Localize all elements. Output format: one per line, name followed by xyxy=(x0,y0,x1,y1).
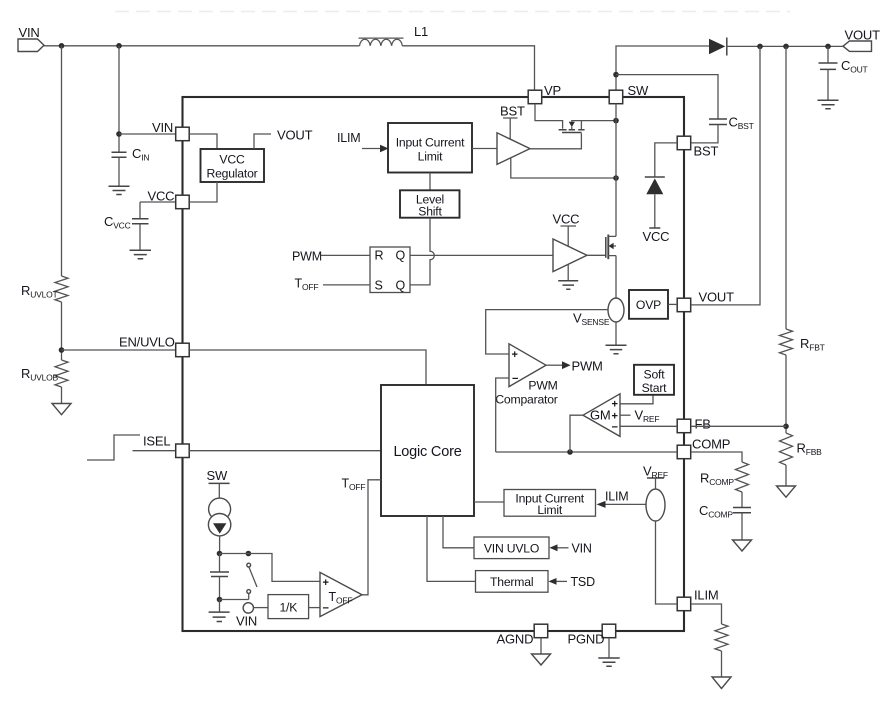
wire Logic Core to VIN UVLO xyxy=(443,516,474,548)
Soft Start block xyxy=(634,365,674,395)
junction dot SW node xyxy=(613,118,619,124)
ISEL step symbol xyxy=(87,435,140,460)
svg-text:Q: Q xyxy=(396,249,406,263)
svg-text:−: − xyxy=(323,603,329,615)
svg-text:SW: SW xyxy=(207,468,228,483)
resistor RFBT xyxy=(780,329,793,355)
svg-text:Shift: Shift xyxy=(418,205,442,219)
svg-text:FB: FB xyxy=(695,417,711,432)
Input Current Limit block U4 xyxy=(504,490,596,517)
wire current source to node xyxy=(219,536,221,554)
wire COMP line xyxy=(496,451,678,453)
wire CVCC to VCC pin xyxy=(140,201,176,203)
svg-text:PWM: PWM xyxy=(572,359,603,374)
svg-text:SW: SW xyxy=(628,83,649,98)
pin VCC xyxy=(176,195,190,209)
svg-text:TSD: TSD xyxy=(571,575,596,589)
resistor RFBB xyxy=(780,433,793,465)
pin VP xyxy=(528,90,542,104)
power FET Q1 xyxy=(605,237,607,258)
VIN input tag xyxy=(18,39,44,52)
junction dot switch tap xyxy=(246,551,252,557)
svg-text:S: S xyxy=(375,278,383,292)
capacitor CBST xyxy=(709,119,727,125)
wire Logic Core to Thermal xyxy=(427,516,476,581)
wire COMP pin to RCOMP xyxy=(691,452,742,462)
ground arrow AGND xyxy=(540,638,542,654)
ground timing cap xyxy=(219,600,221,612)
ground CVCC xyxy=(130,250,152,259)
current sense VSENSE xyxy=(608,298,624,322)
svg-text:VIN: VIN xyxy=(19,25,40,40)
junction dot xyxy=(116,43,122,49)
svg-text:ILIM: ILIM xyxy=(694,588,718,603)
ground VSENSE xyxy=(615,322,617,345)
pin PGND xyxy=(602,624,616,638)
wire GM output xyxy=(570,415,583,452)
pin ISEL xyxy=(176,444,190,458)
Level Shift block xyxy=(400,190,460,217)
svg-text:+: + xyxy=(612,399,618,411)
wire U1 to Level Shift xyxy=(429,173,431,191)
svg-text:VCC: VCC xyxy=(148,189,175,204)
junction dot xyxy=(783,44,789,50)
VIN arrow into VIN UVLO xyxy=(549,544,557,551)
ground CIN xyxy=(109,186,130,194)
pin VOUT xyxy=(677,298,691,312)
svg-text:1/K: 1/K xyxy=(279,601,297,615)
pin BST xyxy=(677,136,691,150)
svg-text:Regulator: Regulator xyxy=(206,167,257,181)
wire Level Shift to latch with hop xyxy=(410,218,434,285)
svg-text:VOUT: VOUT xyxy=(845,28,881,43)
svg-text:ISEL: ISEL xyxy=(143,434,170,449)
ground arrow RFBB xyxy=(777,486,796,497)
svg-text:VCC: VCC xyxy=(219,153,245,167)
capacitor CVCC xyxy=(139,202,141,218)
svg-text:AGND: AGND xyxy=(497,632,534,647)
svg-text:COMP: COMP xyxy=(692,437,730,452)
wire RFBT to FB node xyxy=(785,355,787,433)
1/K block xyxy=(268,595,309,619)
wire Q2 gate xyxy=(530,133,581,149)
svg-text:Q: Q xyxy=(396,278,406,292)
ground COUT xyxy=(818,100,839,109)
ILIM arrow into U4 xyxy=(597,501,606,508)
wire RILIM to ground xyxy=(721,651,723,677)
wire ISEL to Logic Core xyxy=(189,450,381,452)
svg-text:VCC: VCC xyxy=(643,229,670,244)
ground gate driver xyxy=(567,264,569,280)
error amp GM xyxy=(583,394,620,437)
wire node to TOFF comparator xyxy=(220,554,321,582)
wire L1 to VP pin xyxy=(402,46,534,90)
wire GM to Soft Start xyxy=(620,395,653,404)
VREF source oval xyxy=(646,489,665,521)
svg-text:EN/UVLO: EN/UVLO xyxy=(119,335,175,350)
wire VOUT pin to rail xyxy=(691,46,760,305)
wire VOUT tap xyxy=(254,134,271,149)
wire RFBB to ground xyxy=(785,465,787,486)
sense FET Q2 xyxy=(535,104,563,129)
svg-text:BST: BST xyxy=(500,104,525,119)
svg-text:PGND: PGND xyxy=(568,632,605,647)
wire OVP to VOUT pin xyxy=(668,303,677,305)
gate driver A2 xyxy=(553,239,587,272)
resistor RCOMP xyxy=(736,462,749,492)
junction dot xyxy=(825,44,831,50)
wire SW pin up to VOUT rail xyxy=(616,46,709,90)
junction dot cap bottom xyxy=(217,597,223,603)
pin FB xyxy=(677,419,691,433)
svg-text:VOUT: VOUT xyxy=(277,128,313,143)
wire VREF oval to ILIM pin xyxy=(656,521,678,604)
ground arrow RILIM xyxy=(712,677,731,689)
wire RUVLOT to node xyxy=(61,302,63,360)
wire to BST driver xyxy=(472,148,497,150)
driver amp A1 xyxy=(497,133,530,165)
svg-text:Comparator: Comparator xyxy=(495,393,557,407)
wire TOFF comparator to Logic Core xyxy=(362,480,381,595)
resistor RUVLOB xyxy=(55,360,68,387)
svg-text:Soft: Soft xyxy=(644,368,666,382)
capacitor CIN xyxy=(112,152,127,157)
wire CBST to BST pin xyxy=(691,125,718,143)
pin AGND xyxy=(534,624,548,638)
VCC rail stub gate driver xyxy=(561,226,577,246)
svg-text:VIN: VIN xyxy=(572,542,592,556)
OVP block xyxy=(629,290,668,319)
junction dot EN/UVLO divider xyxy=(59,347,65,353)
svg-text:Limit: Limit xyxy=(418,150,444,164)
junction dot driver return xyxy=(613,175,619,181)
ground PGND xyxy=(608,638,610,658)
svg-text:VIN: VIN xyxy=(236,614,257,629)
wire VCC Regulator to VCC pin xyxy=(189,182,217,202)
svg-text:BST: BST xyxy=(694,144,719,159)
diode D1 xyxy=(709,39,725,54)
junction dot xyxy=(59,43,65,49)
wire driver to gate xyxy=(587,254,606,256)
wire VSENSE to PWM comparator xyxy=(486,310,608,354)
svg-text:PWM: PWM xyxy=(292,250,322,264)
wire ILIM pin to resistor xyxy=(691,604,722,624)
svg-text:L1: L1 xyxy=(414,24,428,39)
wire to CBST xyxy=(616,75,718,119)
capacitor COUT xyxy=(827,46,829,62)
junction dot FB node xyxy=(783,424,789,430)
wire VIN rail down left column xyxy=(61,46,63,276)
resistor RUVLOT xyxy=(55,276,68,302)
wire driver return to SW xyxy=(511,158,614,178)
wire GM VREF input xyxy=(620,414,631,416)
wire VIN pin to VCC Regulator xyxy=(189,134,217,149)
wire VIN rail left xyxy=(44,45,360,47)
wire GM FB input xyxy=(620,425,677,427)
diode D2 xyxy=(645,176,665,178)
BST rail stub xyxy=(503,118,518,140)
wire RCOMP to CCOMP xyxy=(741,492,743,507)
faint page artifact line xyxy=(115,11,790,13)
svg-text:−: − xyxy=(512,373,518,385)
ground arrow CCOMP xyxy=(733,540,752,551)
wire 1/K to comparator xyxy=(309,607,320,609)
VIN source bubble xyxy=(243,603,253,613)
wire RUVLOB to ground xyxy=(61,387,63,404)
pin VIN xyxy=(176,127,190,141)
wire SW vertical xyxy=(615,104,617,237)
wire EN/UVLO xyxy=(62,349,176,351)
PWM comparator U3 xyxy=(509,344,546,387)
svg-text:Input Current: Input Current xyxy=(396,136,465,150)
svg-text:VIN UVLO: VIN UVLO xyxy=(484,541,539,555)
wire bubble to 1/K xyxy=(254,607,269,609)
wire VIN column to CIN xyxy=(118,46,120,152)
svg-text:PWM: PWM xyxy=(528,379,557,393)
discharge switch xyxy=(247,563,251,567)
VIN UVLO block xyxy=(474,537,549,559)
VCC Regulator block xyxy=(201,149,265,182)
svg-text:ILIM: ILIM xyxy=(337,131,361,145)
svg-text:R: R xyxy=(375,249,384,263)
svg-text:Start: Start xyxy=(642,381,668,395)
junction dot xyxy=(757,44,763,50)
Input Current Limit block U1 xyxy=(388,123,472,173)
svg-text:VIN: VIN xyxy=(152,120,173,135)
resistor RILIM xyxy=(715,624,728,651)
svg-text:OVP: OVP xyxy=(636,298,661,312)
wire Logic Core to Input Current Limit xyxy=(474,501,504,503)
wire diode to VOUT tag xyxy=(727,45,843,47)
junction dot timing node xyxy=(217,551,223,557)
wire rail to RFBT xyxy=(785,46,787,329)
svg-text:+: + xyxy=(323,577,329,589)
capacitor CCOMP xyxy=(733,508,751,513)
junction dot VIN pin node xyxy=(116,131,122,137)
wire comparator inverting input xyxy=(496,378,509,452)
IC boundary xyxy=(183,97,685,631)
svg-text:VP: VP xyxy=(544,83,561,98)
capacitor timing xyxy=(219,554,221,572)
inductor L1 xyxy=(360,39,403,46)
svg-text:+: + xyxy=(512,349,518,361)
svg-text:Limit: Limit xyxy=(537,503,563,517)
PWM output arrow xyxy=(546,364,562,366)
pin ILIM xyxy=(677,597,691,611)
junction dot CBST tap xyxy=(613,72,619,78)
pin EN/UVLO xyxy=(176,343,190,357)
wire CCOMP to ground xyxy=(741,513,743,540)
TSD arrow into Thermal xyxy=(548,578,556,585)
junction dot GM output xyxy=(567,449,573,455)
wire Q1 source to VSENSE xyxy=(615,256,617,298)
pin COMP xyxy=(677,445,691,459)
svg-text:VOUT: VOUT xyxy=(699,290,735,305)
wire EN/UVLO to Logic Core xyxy=(189,350,426,385)
wire latch Q to gate driver xyxy=(410,254,553,256)
svg-text:GM: GM xyxy=(590,408,611,423)
wire ISEL xyxy=(133,450,176,452)
Logic Core block xyxy=(381,385,474,516)
wire diode to VCC xyxy=(654,194,656,228)
VOUT output tag xyxy=(843,41,872,51)
wire FB pin to node xyxy=(691,425,786,427)
TOFF comparator U5 xyxy=(320,572,362,616)
RS latch U2 xyxy=(370,247,410,293)
ground arrow RUVLOB xyxy=(52,404,71,415)
wire to VIN pin xyxy=(119,133,176,135)
svg-text:ILIM: ILIM xyxy=(605,490,629,504)
current source I1 xyxy=(209,498,231,520)
svg-text:VCC: VCC xyxy=(553,212,580,227)
svg-text:+: + xyxy=(612,410,618,422)
wire BST pin to diode xyxy=(655,143,677,177)
Thermal block xyxy=(476,571,549,593)
pin SW xyxy=(609,90,623,104)
svg-text:Logic Core: Logic Core xyxy=(393,444,461,460)
svg-text:Thermal: Thermal xyxy=(490,575,533,589)
svg-text:−: − xyxy=(612,422,618,434)
